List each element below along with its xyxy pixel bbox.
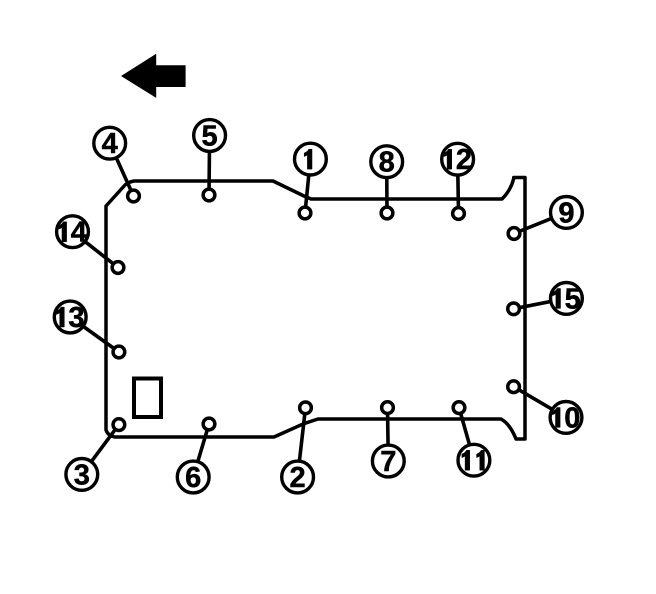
svg-text:6: 6 — [185, 462, 201, 494]
leader wire 1 — [305, 159, 310, 213]
bolt hole 11 — [453, 402, 465, 414]
bolt hole 12 — [453, 208, 465, 220]
bolt hole 9 — [508, 228, 520, 240]
leader wire 10 — [514, 387, 566, 418]
bolt hole 2 — [300, 402, 312, 414]
callout circle 9 — [551, 197, 583, 230]
callout circle 6 — [177, 461, 209, 494]
bolt hole 1 — [299, 207, 311, 219]
bolt hole 8 — [381, 207, 393, 219]
svg-text:0: 0 — [564, 402, 580, 434]
callout circle 12 — [442, 143, 474, 176]
leader wire 5 — [207, 136, 211, 196]
callout circle 4 — [94, 127, 126, 160]
callout circle 13 — [54, 301, 86, 334]
leader wire 9 — [514, 212, 566, 233]
svg-text:4: 4 — [71, 217, 87, 249]
leader wire 4 — [110, 143, 134, 196]
svg-text:2: 2 — [290, 462, 306, 494]
leader wire 3 — [82, 425, 119, 475]
drain plug rectangle — [134, 379, 161, 418]
bolt hole 13 — [113, 346, 125, 358]
leader wire 2 — [298, 408, 306, 477]
callout circle 1 — [295, 143, 327, 175]
callout circle 2 — [282, 461, 314, 494]
callout circle 5 — [194, 120, 226, 153]
bolt hole 14 — [112, 262, 124, 274]
bolt hole 7 — [382, 402, 394, 414]
svg-text:4: 4 — [102, 128, 118, 160]
bolt hole 4 — [128, 190, 140, 202]
svg-text:3: 3 — [74, 459, 90, 491]
svg-text:2: 2 — [456, 144, 472, 176]
callout circle 10 — [550, 402, 582, 435]
callout circle 8 — [371, 146, 403, 179]
leader wire 8 — [385, 162, 389, 213]
svg-text:9: 9 — [558, 197, 574, 229]
leader wire 14 — [73, 232, 119, 268]
svg-text:5: 5 — [202, 121, 218, 153]
svg-text:7: 7 — [380, 446, 396, 478]
callout circle 3 — [66, 459, 98, 492]
svg-text:5: 5 — [565, 283, 581, 315]
leader wire 12 — [456, 159, 460, 213]
leader wire 6 — [193, 424, 209, 477]
bolt hole 15 — [508, 303, 520, 315]
direction arrow (front of engine) — [121, 54, 186, 98]
bolt hole 3 — [113, 419, 125, 431]
leader wire 13 — [70, 317, 119, 352]
bolt hole 5 — [203, 189, 215, 201]
callout circle 15 — [551, 283, 583, 316]
callout circle 11 — [458, 444, 490, 476]
leader wire 7 — [386, 408, 390, 461]
leader wire 11 — [459, 408, 474, 461]
callout circle 14 — [57, 216, 89, 249]
bolt hole 6 — [203, 418, 215, 430]
bolt hole 10 — [508, 381, 520, 393]
leader wire 15 — [514, 298, 567, 308]
oil pan outline — [106, 178, 525, 440]
callout circle 7 — [372, 445, 404, 478]
svg-text:8: 8 — [379, 147, 395, 179]
svg-text:3: 3 — [68, 302, 84, 334]
